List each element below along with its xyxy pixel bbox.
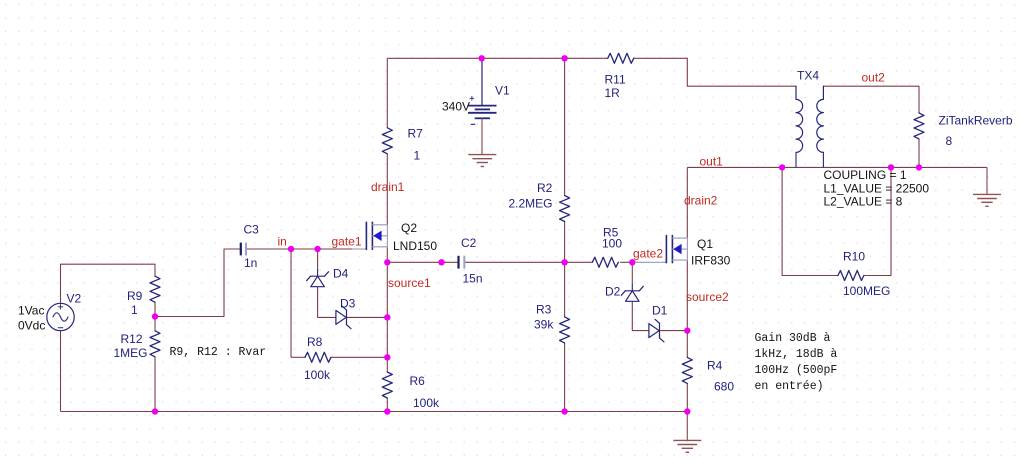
svg-text:D1: D1 [652,304,668,318]
wire R8 left [291,356,305,358]
svg-text:COUPLING = 1: COUPLING = 1 [824,168,907,182]
svg-text:source2: source2 [686,290,729,304]
svg-text:in: in [278,234,287,248]
junction out1 / R10 left [779,164,785,170]
svg-text:ZiTankReverb: ZiTankReverb [939,114,1013,128]
wire right ground pin [986,167,988,194]
junction bottom rail / R4 / ground [684,408,690,414]
svg-text:drain2: drain2 [684,194,718,208]
resistor R8 [305,352,331,362]
junction gate2 / D2 [629,259,635,265]
resistor R4 [682,357,692,383]
svg-text:en entrée): en entrée) [755,380,824,393]
svg-text:8: 8 [946,134,953,148]
svg-text:1MEG: 1MEG [114,346,148,360]
svg-text:LND150: LND150 [393,239,437,253]
svg-text:340V: 340V [442,100,470,114]
wire transformer secondary top to ZiTankReverb (node out2) [823,86,919,113]
svg-text:Q2: Q2 [401,221,417,235]
wire D2 bottom to D1 anode [632,302,649,331]
zener diode D1 [649,324,659,338]
wire R5 to gate2 node [620,261,632,263]
svg-text:R11: R11 [605,73,626,87]
wire C2 to R2/R3 node [464,261,564,263]
wire corner down to transformer primary [687,58,796,86]
wire node down to R3 [564,262,566,317]
resistor R11 [608,53,634,63]
wire R8 right to source column [331,356,387,358]
wire source1 column down to bottom rail [386,262,388,372]
wire R2 bottom to node [564,221,566,262]
svg-text:1Vac: 1Vac [18,304,44,318]
junction ZiTankReverb bottom [916,164,922,170]
svg-text:R8: R8 [307,335,323,349]
wire R7 top [386,58,388,128]
junction R8 / source1 column [384,354,390,360]
svg-text:V2: V2 [67,292,82,306]
wire R12 bottom [154,357,156,412]
junction D1 / source2 column [684,327,690,333]
zener diode D3 [336,310,346,324]
resistor R9 [150,276,160,302]
DC source V1 battery [468,105,497,107]
wire node to R5 [565,261,593,263]
resistor ZiTankReverb [914,113,924,139]
wire bottom rail [61,411,688,413]
svg-text:39k: 39k [534,318,554,332]
ground under V1 [468,154,496,156]
svg-text:out2: out2 [862,71,886,85]
junction node in [288,246,294,252]
svg-text:2.2MEG: 2.2MEG [509,197,553,211]
svg-text:R3: R3 [536,303,552,317]
junction R9 / R12 / C3 branch [152,313,158,319]
svg-text:R9: R9 [127,289,143,303]
junction top rail / V1 [479,55,485,61]
resistor R12 [150,331,160,357]
wire R3 bottom [564,343,566,412]
wire D4 bottom to D3 anode [318,287,336,317]
svg-text:D3: D3 [340,297,356,311]
svg-text:1: 1 [131,303,138,317]
wire top rail left (R7 branch to R11) [387,57,607,59]
capacitor C2 [457,256,459,269]
svg-text:1: 1 [414,149,421,163]
wire Q2 source down (node source1) [386,247,388,262]
wire transformer bottom rail (node out1) [687,166,987,168]
transformer TX4 secondary winding [817,86,824,152]
junction top rail / R2 branch [561,55,567,61]
svg-text:1n: 1n [244,256,257,270]
resistor R7 [382,128,392,154]
svg-text:1R: 1R [605,86,621,100]
wire R10 loop [782,167,838,275]
wire Q1 gate stub [632,261,666,263]
wire right coil bottom stub [822,152,824,167]
svg-text:R2: R2 [537,181,553,195]
transistor Q2 (LND150) [365,222,367,249]
junction gate1 / D4 [314,246,320,252]
transformer TX4 primary winding [796,86,803,152]
wire ZiTankReverb bottom [918,139,920,168]
svg-text:D2: D2 [605,285,621,299]
ground bottom center [673,439,701,441]
svg-text:100Hz (500pF: 100Hz (500pF [755,364,838,377]
ground right [973,193,1001,195]
wire V1 bottom pin to ground [481,118,483,154]
wire R9 bottom to node, up to C3 [154,302,156,316]
svg-text:0Vdc: 0Vdc [18,319,45,333]
svg-text:C3: C3 [244,223,260,237]
wire D3 cathode to source column [347,316,388,318]
svg-text:R7: R7 [408,127,424,141]
svg-text:100: 100 [602,237,622,251]
wire D4 top pin [317,249,319,269]
junction D3 / source1 column [384,314,390,320]
svg-text:Gain 30dB à: Gain 30dB à [755,332,831,345]
junction R10 right [888,164,894,170]
zener diode D4 [311,275,325,277]
svg-text:C2: C2 [461,236,477,250]
wire Q2 gate stub [352,248,366,250]
resistor R6 [382,372,392,398]
wire source2 to R4 [686,331,688,358]
svg-text:out1: out1 [700,155,724,169]
wire R12 top [154,317,156,331]
junction bottom rail / R12 [152,408,158,414]
wire R6 bottom [386,398,388,412]
wire V2 bottom [60,331,62,412]
svg-text:100k: 100k [304,368,331,382]
junction wire dot at C2 left [438,259,444,265]
junction bottom rail / R3 [561,408,567,414]
svg-text:L1_VALUE = 22500: L1_VALUE = 22500 [824,181,930,195]
svg-text:drain1: drain1 [371,180,405,194]
junction source1 [384,259,390,265]
svg-text:IRF830: IRF830 [691,254,731,268]
svg-text:R12: R12 [121,332,143,346]
wire Q1 drain (node drain2) [686,167,688,238]
resistor R3 [560,317,570,343]
zener diode D2 [625,290,639,292]
wire source1 to C2 [387,261,458,263]
svg-text:V1: V1 [495,84,510,98]
wire Q1 source down (node source2) [686,261,688,331]
wire V2 top to R9 top [61,264,156,303]
svg-text:D4: D4 [333,267,349,281]
resistor R10 [838,271,864,281]
svg-text:15n: 15n [463,272,483,286]
wire R2 branch from top rail [564,58,566,195]
svg-text:L2_VALUE = 8: L2_VALUE = 8 [824,195,903,209]
wire node in down to R8 [290,249,292,357]
wire C3 to Q2 gate (nodes in, gate1) [246,248,352,250]
capacitor C3 [240,243,242,256]
transistor Q1 (IRF830) [665,236,667,263]
svg-text:gate2: gate2 [633,247,663,261]
wire center ground pin [686,412,688,441]
wire R4 bottom [686,383,688,411]
svg-text:source1: source1 [388,276,431,290]
svg-text:TX4: TX4 [797,69,819,83]
wire V1 top pin [481,58,483,105]
wire top rail right (R11 to corner) [633,57,687,59]
svg-text:R9, R12 : Rvar: R9, R12 : Rvar [170,346,267,359]
svg-text:gate1: gate1 [332,234,362,248]
resistor R2 [560,196,570,222]
junction bottom rail / R6 [384,408,390,414]
resistor R5 [592,257,618,267]
svg-text:1kHz, 18dB à: 1kHz, 18dB à [755,348,838,361]
wire D2 top pin [631,262,633,283]
svg-text:R6: R6 [410,374,426,388]
svg-text:680: 680 [714,380,734,394]
wire D1 cathode to source2 column [660,330,688,332]
wire left coil bottom stub [795,152,797,167]
AC source V2 [47,303,74,330]
svg-text:Q1: Q1 [697,237,713,251]
svg-text:R4: R4 [707,359,723,373]
svg-text:R10: R10 [843,250,865,264]
svg-text:100k: 100k [413,396,440,410]
svg-text:100MEG: 100MEG [843,284,890,298]
junction C2 / R2 / R3 / R5 [561,259,567,265]
wire R7 bottom to Q2 drain (node drain1) [386,154,388,225]
